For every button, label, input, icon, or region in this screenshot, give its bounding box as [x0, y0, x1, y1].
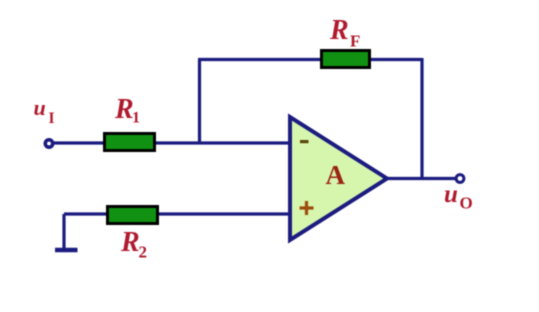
svg-text:A: A	[326, 160, 346, 190]
svg-text:R: R	[114, 94, 134, 125]
svg-text:F: F	[350, 32, 360, 51]
svg-text:1: 1	[132, 110, 140, 127]
svg-text:R: R	[120, 227, 140, 258]
svg-text:O: O	[460, 194, 473, 213]
svg-text:u: u	[34, 95, 46, 120]
svg-text:u: u	[444, 181, 458, 208]
svg-text:I: I	[49, 110, 55, 127]
svg-text:2: 2	[139, 243, 148, 262]
svg-text:R: R	[329, 15, 349, 46]
